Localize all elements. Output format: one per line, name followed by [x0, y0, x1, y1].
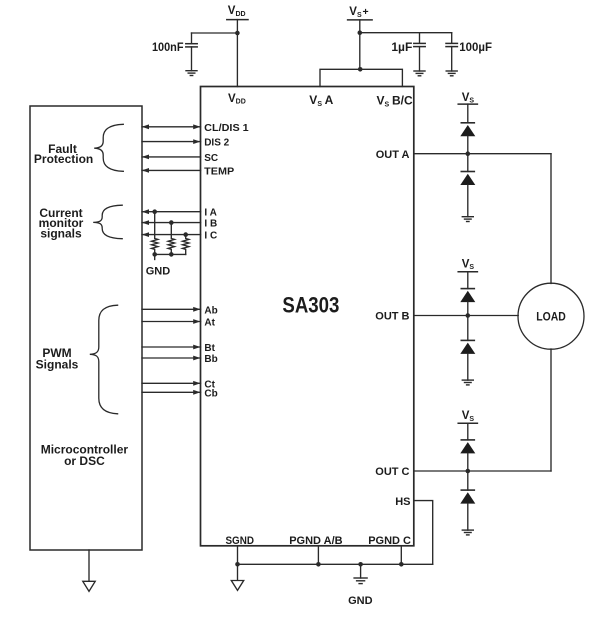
svg-text:OUT C: OUT C: [375, 466, 409, 478]
svg-text:100nF: 100nF: [152, 40, 184, 54]
node PGND A/B junction: [316, 562, 321, 567]
wire TEMP (to microcontroller): [142, 168, 201, 173]
node GND/bus junction: [358, 562, 363, 567]
svg-text:Ab: Ab: [204, 305, 217, 316]
ground (power GND earth): [354, 578, 367, 584]
node I A / R1 junction: [152, 209, 157, 214]
microcontroller box: [30, 106, 142, 550]
wire microcontroller ground drop: [88, 550, 90, 581]
wire OUT C to load (vertical): [550, 349, 552, 471]
svg-text:CL/DIS 1: CL/DIS 1: [204, 123, 249, 134]
ground (phase A earth): [462, 217, 473, 222]
wire At (into SA303): [142, 319, 201, 324]
svg-text:SA303: SA303: [282, 293, 339, 318]
capacitor C3 100uF: [446, 33, 457, 71]
svg-text:1µF: 1µF: [391, 40, 412, 54]
wire I C (to microcontroller): [142, 232, 201, 237]
node PGND C junction: [399, 562, 404, 567]
svg-text:VS: VS: [462, 410, 475, 423]
node bracket/VS+ junction: [358, 67, 363, 72]
wire OUT C: [414, 470, 551, 472]
diode D4 (phase B low): [460, 316, 475, 381]
brace current monitor: [93, 205, 122, 239]
label Current monitor signals: [39, 206, 84, 240]
net VS supply (phase B): [458, 258, 477, 271]
wire HS to ground bus: [414, 501, 433, 565]
node R2/bus junction: [169, 252, 174, 257]
net VS supply (phase C): [458, 410, 477, 423]
svg-text:SC: SC: [204, 153, 218, 164]
svg-text:Signals: Signals: [36, 358, 79, 372]
net VS supply (phase A): [458, 92, 477, 105]
node VDD/C1 junction: [235, 31, 240, 36]
wire VS to D3: [467, 272, 469, 289]
svg-text:LOAD: LOAD: [536, 312, 566, 324]
wire OUT B: [414, 315, 518, 317]
wire Cb (into SA303): [142, 390, 201, 395]
wire VDD rail down to pin VDD: [236, 20, 238, 87]
ground (C1 earth): [186, 71, 197, 76]
wire Bt (into SA303): [142, 345, 201, 350]
node VS+/caps junction: [358, 30, 363, 35]
node I B / R2 junction: [169, 220, 174, 225]
load M1 (circle): [518, 283, 584, 349]
wire VS to D1: [467, 104, 469, 123]
node OUT C junction: [466, 469, 471, 474]
ground (phase B earth): [462, 380, 473, 385]
wire VDD junction to C1: [192, 32, 238, 34]
wire SGND drop: [237, 546, 239, 581]
svg-text:I B: I B: [204, 219, 217, 230]
ground (phase C earth): [462, 530, 473, 535]
resistor R3: [183, 235, 189, 255]
diode D1 (phase A high): [460, 123, 475, 154]
svg-text:PGND C: PGND C: [368, 535, 411, 547]
wire PGND C drop: [400, 546, 402, 565]
wire SC (to microcontroller): [142, 155, 201, 160]
wire GND drop: [360, 564, 362, 578]
wire resistor common bus: [155, 253, 186, 255]
diode D3 (phase B high): [460, 289, 475, 316]
svg-text:VSA: VSA: [309, 93, 333, 108]
wire ground bus: [238, 563, 433, 565]
label Fault Protection: [34, 142, 93, 166]
brace fault protection: [94, 124, 123, 171]
ground (C2 earth): [414, 71, 425, 76]
svg-text:OUT B: OUT B: [375, 311, 409, 323]
svg-text:VDD: VDD: [228, 93, 246, 106]
ground (SGND signal triangle): [231, 581, 243, 591]
capacitor C1 100nF: [186, 33, 197, 71]
wire I B (to microcontroller): [142, 220, 201, 225]
svg-text:Cb: Cb: [204, 388, 217, 399]
svg-text:I A: I A: [204, 208, 216, 219]
wire bracket VS A to VS B/C: [320, 69, 402, 86]
wire OUT A: [414, 153, 551, 155]
brace PWM: [90, 305, 118, 414]
svg-text:I C: I C: [204, 231, 217, 242]
diode D2 (phase A low): [460, 154, 475, 217]
ground (C3 earth): [446, 71, 457, 76]
net VDD supply symbol (top): [227, 5, 248, 20]
svg-text:SGND: SGND: [225, 535, 254, 547]
wire Ab (into SA303): [142, 307, 201, 312]
node OUT B junction: [466, 313, 471, 318]
wire Ct (into SA303): [142, 381, 201, 386]
svg-text:HS: HS: [395, 496, 410, 508]
node I C / R3 junction: [183, 232, 188, 237]
svg-text:GND: GND: [348, 595, 373, 607]
svg-text:DIS 2: DIS 2: [204, 138, 229, 149]
op-amp U1 SA303 IC box: [201, 87, 414, 546]
wire VS to D5: [467, 423, 469, 440]
svg-text:VS+: VS+: [349, 6, 368, 19]
wire I A (to microcontroller): [142, 209, 201, 214]
wire OUT A to load (vertical): [550, 154, 552, 284]
net VS+ supply symbol (top): [348, 6, 373, 20]
svg-text:GND: GND: [146, 265, 171, 277]
svg-text:At: At: [204, 318, 215, 329]
svg-text:PGND A/B: PGND A/B: [289, 535, 342, 547]
svg-text:signals: signals: [40, 226, 82, 240]
resistor R2: [168, 223, 174, 255]
node OUT A junction: [466, 151, 471, 156]
svg-text:100µF: 100µF: [459, 40, 492, 54]
wire DIS 2 (into SA303): [142, 139, 201, 144]
node SGND/bus junction: [235, 562, 240, 567]
wire CL/DIS 1 (bidirectional): [142, 124, 201, 129]
svg-text:Bt: Bt: [204, 343, 215, 354]
svg-text:or DSC: or DSC: [64, 454, 105, 468]
svg-text:TEMP: TEMP: [204, 166, 234, 177]
capacitor C2 1uF: [414, 33, 425, 71]
label Microcontroller or DSC: [41, 443, 129, 469]
wire Bb (into SA303): [142, 356, 201, 361]
ground (microcontroller signal triangle): [83, 581, 95, 591]
wire PGND A/B drop: [317, 546, 319, 565]
wire GND stub: [154, 254, 156, 259]
resistor R1: [152, 212, 158, 255]
label PWM Signals: [36, 346, 79, 372]
wire VS+ junction to decoupling caps: [360, 32, 452, 34]
svg-text:VS: VS: [462, 92, 475, 105]
node R1/bus junction: [152, 252, 157, 257]
wire VS+ rail down to bracket: [359, 20, 361, 69]
svg-text:VSB/C: VSB/C: [377, 94, 413, 109]
svg-text:VDD: VDD: [228, 5, 246, 18]
svg-text:VS: VS: [462, 258, 475, 271]
svg-text:Protection: Protection: [34, 152, 93, 166]
diode D5 (phase C high): [460, 440, 475, 471]
svg-text:OUT A: OUT A: [376, 149, 410, 161]
diode D6 (phase C low): [460, 471, 475, 530]
svg-text:Bb: Bb: [204, 354, 217, 365]
